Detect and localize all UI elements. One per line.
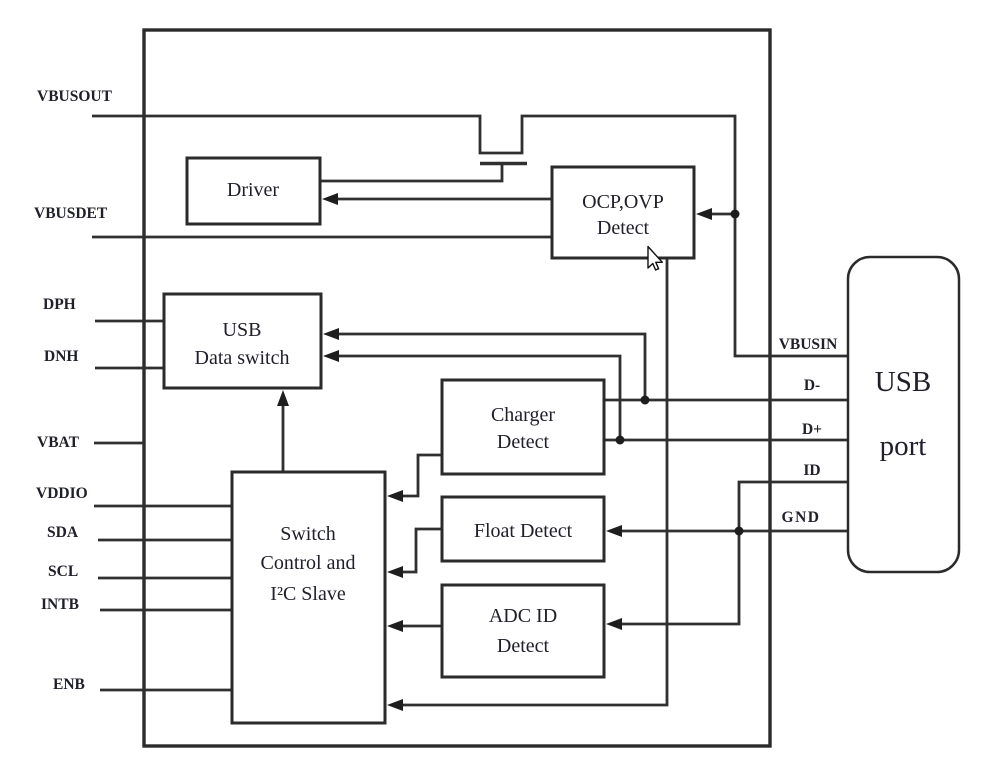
- svg-text:Detect: Detect: [497, 635, 550, 657]
- svg-text:Detect: Detect: [597, 217, 650, 239]
- svg-text:VBAT: VBAT: [37, 434, 80, 451]
- svg-text:ADC ID: ADC ID: [489, 605, 557, 627]
- svg-text:Driver: Driver: [227, 179, 280, 201]
- svg-text:Detect: Detect: [497, 431, 550, 453]
- svg-text:SCL: SCL: [48, 563, 78, 580]
- svg-text:I²C Slave: I²C Slave: [270, 583, 346, 605]
- svg-text:VBUSOUT: VBUSOUT: [37, 88, 113, 105]
- svg-text:Switch: Switch: [280, 523, 336, 545]
- svg-text:ENB: ENB: [53, 676, 85, 693]
- svg-text:DPH: DPH: [43, 296, 76, 313]
- svg-text:DNH: DNH: [44, 348, 78, 365]
- svg-text:GND: GND: [782, 509, 821, 526]
- svg-text:D+: D+: [802, 421, 822, 438]
- svg-text:ID: ID: [803, 462, 820, 479]
- svg-text:USB: USB: [875, 366, 931, 398]
- svg-text:VBUSDET: VBUSDET: [34, 205, 108, 222]
- svg-text:Float Detect: Float Detect: [474, 520, 573, 542]
- svg-text:INTB: INTB: [41, 596, 79, 613]
- svg-text:D-: D-: [804, 377, 820, 394]
- svg-text:Data switch: Data switch: [195, 347, 290, 369]
- svg-text:port: port: [880, 430, 927, 462]
- svg-text:Charger: Charger: [491, 404, 555, 426]
- svg-text:SDA: SDA: [47, 524, 79, 541]
- svg-text:VBUSIN: VBUSIN: [779, 336, 838, 353]
- svg-text:OCP,OVP: OCP,OVP: [582, 191, 664, 213]
- svg-text:VDDIO: VDDIO: [36, 485, 88, 502]
- svg-text:USB: USB: [223, 319, 262, 341]
- svg-text:Control and: Control and: [261, 552, 356, 574]
